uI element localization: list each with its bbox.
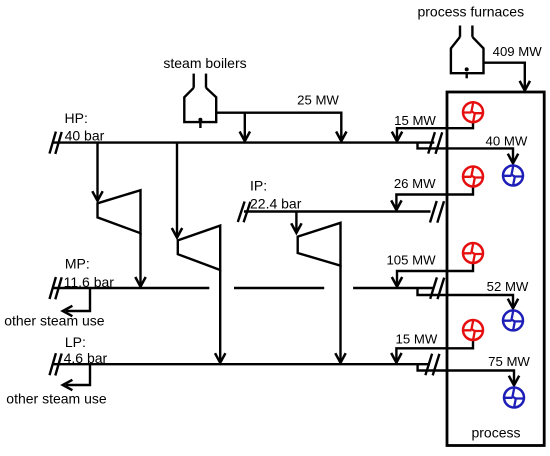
- heat sink HK2 (blue, 52 MW): [503, 310, 523, 330]
- wire: T1 exhaust to MP header: [135, 233, 145, 286]
- wire: process source to HP header, 15 MW: [392, 123, 473, 141]
- boiler B (steam boilers symbol): [184, 74, 216, 128]
- svg-text:40 bar: 40 bar: [65, 127, 105, 143]
- svg-text:22.4 bar: 22.4 bar: [250, 196, 302, 212]
- turbine T1 feed from HP header: [92, 143, 102, 201]
- svg-text:25 MW: 25 MW: [297, 93, 339, 108]
- line-break mark: IP header at process box wall: [430, 201, 444, 223]
- wire: MP header jog into process box (52 MW supply): [418, 288, 519, 308]
- svg-text:other steam use: other steam use: [4, 313, 105, 329]
- svg-text:process: process: [471, 425, 520, 441]
- LP steam header (4.6 bar): [52, 363, 430, 365]
- line-break mark: IP header left end: [238, 202, 251, 223]
- wire: process source to MP header, 105 MW: [392, 264, 473, 287]
- IP steam header (22.4 bar): [244, 210, 431, 212]
- svg-text:HP:: HP:: [65, 110, 88, 126]
- svg-text:IP:: IP:: [250, 178, 267, 194]
- MP steam header (11.6 bar), with crossing gaps: [52, 287, 434, 289]
- wire: MP other steam use takeoff: [63, 288, 90, 316]
- svg-text:52 MW: 52 MW: [487, 279, 529, 294]
- svg-text:75 MW: 75 MW: [488, 354, 530, 369]
- heat sink HK3 (blue, 75 MW): [504, 388, 524, 408]
- heat source HS3 (red, MP): [463, 243, 483, 263]
- svg-text:other steam use: other steam use: [6, 391, 107, 407]
- turbine T3 feed from IP header: [291, 212, 301, 233]
- heat source HS1 (red, HP): [463, 102, 483, 122]
- furnace F1 (process furnaces symbol): [451, 26, 484, 79]
- heat source HS4 (red, LP): [463, 320, 483, 340]
- heat source HS2 (red, IP): [463, 167, 483, 187]
- heat sink HK1 (blue, 40 MW): [503, 166, 523, 186]
- svg-text:105 MW: 105 MW: [386, 253, 436, 268]
- wire: LP other steam use takeoff: [63, 364, 90, 390]
- line-break mark: HP header at process box wall: [428, 132, 442, 154]
- line-break mark: LP header at process box wall: [425, 354, 439, 376]
- svg-text:LP:: LP:: [65, 334, 86, 350]
- svg-text:15 MW: 15 MW: [396, 332, 438, 347]
- HP steam header (40 bar): [52, 141, 434, 143]
- process box (process boundary): [447, 92, 544, 446]
- wire: T3 exhaust to LP header: [335, 266, 345, 363]
- line-break mark: MP header at process box wall: [430, 277, 444, 299]
- svg-text:15 MW: 15 MW: [394, 113, 436, 128]
- line-break mark: LP header left end: [50, 353, 62, 375]
- line-break mark: HP header left end: [50, 132, 62, 154]
- turbine T2: [178, 226, 220, 270]
- wire: process source to LP header, 15 MW: [391, 341, 473, 363]
- turbine T1: [98, 190, 141, 233]
- wire: furnace F1 output to process box, 409 MW: [484, 63, 531, 91]
- svg-text:409 MW: 409 MW: [493, 44, 543, 59]
- svg-text:steam boilers: steam boilers: [163, 55, 246, 71]
- turbine T2 feed from HP header: [172, 143, 182, 238]
- svg-text:26 MW: 26 MW: [394, 176, 436, 191]
- svg-text:process furnaces: process furnaces: [417, 4, 524, 20]
- wire: process source to IP header, 26 MW: [391, 187, 473, 210]
- wire: boiler output line, 25 MW: [216, 113, 346, 141]
- turbine T3: [298, 223, 341, 266]
- wire: HP header jog into process box (40 MW supply): [418, 143, 519, 164]
- line-break mark: MP header left end: [50, 277, 62, 299]
- wire: T2 exhaust to LP header: [215, 270, 225, 363]
- wire: LP header jog into process box (75 MW supply): [418, 364, 520, 385]
- svg-text:MP:: MP:: [65, 256, 90, 272]
- svg-text:40 MW: 40 MW: [486, 133, 528, 148]
